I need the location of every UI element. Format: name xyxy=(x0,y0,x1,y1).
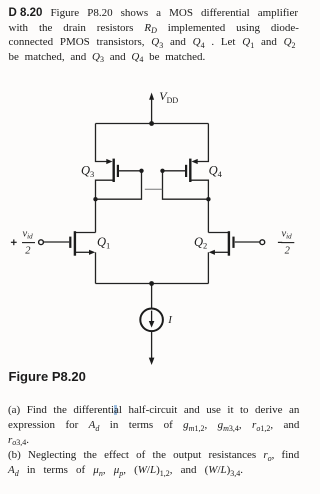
part (a) and (b) text xyxy=(8,403,299,417)
node dot Q3 gate lead xyxy=(139,169,143,173)
label vid/2 left fraction xyxy=(22,228,35,256)
Q3 source arrow (PMOS, points into channel) xyxy=(106,159,112,164)
transistor Q2 channel bar xyxy=(228,231,230,256)
wire tail to current source xyxy=(151,284,153,309)
wire Q3 gate to drain (diode connection) xyxy=(96,171,142,199)
input terminal right (open circle) xyxy=(260,240,265,245)
wire Q2 gate lead xyxy=(235,241,260,243)
transistor Q2 gate bar xyxy=(232,237,234,248)
node dot Q4 drain junction xyxy=(206,197,210,201)
svg-text:Q1: Q1 xyxy=(97,235,110,251)
svg-text:I: I xyxy=(167,314,173,326)
wire tail node xyxy=(96,283,209,285)
top rail wire xyxy=(96,123,209,125)
VDD supply arrow xyxy=(151,99,153,124)
wire Q4 drain down to Q2 drain xyxy=(190,180,208,232)
node dot Q3 drain junction xyxy=(93,197,97,201)
svg-text:vid: vid xyxy=(23,228,34,240)
current source inner arrowhead xyxy=(149,321,155,328)
wire current source to negative rail xyxy=(151,331,153,359)
wire Q1 source down to tail xyxy=(95,252,97,283)
wire Q3 gate lead xyxy=(119,170,142,172)
dashed line of symmetry xyxy=(145,188,163,190)
wire Q1 drain lead xyxy=(76,232,96,234)
wire Q1 gate lead xyxy=(44,241,69,243)
Q4 source arrow (PMOS, points into channel) xyxy=(192,159,198,164)
svg-text:Q2: Q2 xyxy=(194,235,207,251)
wire Q2 source down to tail xyxy=(207,252,209,283)
transistor Q3 channel bar xyxy=(112,159,114,182)
svg-text:VDD: VDD xyxy=(159,89,178,105)
wire Q4 gate lead xyxy=(163,170,186,172)
bottom arrowhead xyxy=(149,358,155,365)
label - (right input polarity) xyxy=(278,241,282,243)
transistor Q4 channel bar xyxy=(189,159,191,182)
node dot tail xyxy=(149,281,154,286)
svg-text:Q3: Q3 xyxy=(81,164,94,180)
wire Q4 source to rail xyxy=(197,124,209,162)
current source inner arrow shaft xyxy=(151,311,153,323)
transistor Q1 gate bar xyxy=(69,237,71,248)
transistor Q1 channel bar xyxy=(74,231,76,256)
stray blue pen mark xyxy=(114,405,117,415)
problem statement text xyxy=(9,6,299,20)
input terminal left (open circle) xyxy=(39,240,44,245)
label vid/2 right fraction xyxy=(281,228,294,256)
node dot VDD/top rail xyxy=(149,121,154,126)
wire Q4 gate to drain (diode connection) xyxy=(163,171,209,199)
node dot Q4 gate lead xyxy=(160,169,164,173)
VDD arrowhead xyxy=(149,93,154,100)
current source I circle xyxy=(140,309,163,332)
wire Q2 drain lead xyxy=(208,232,228,234)
svg-text:vid: vid xyxy=(282,228,293,240)
svg-text:2: 2 xyxy=(285,245,291,256)
wire Q3 source to rail xyxy=(96,124,108,162)
figure caption xyxy=(9,370,86,384)
wire Q1 source lead xyxy=(76,251,90,253)
transistor Q3 gate bar xyxy=(117,165,119,177)
label + (left input polarity) xyxy=(11,239,17,245)
svg-text:Q4: Q4 xyxy=(209,163,223,179)
transistor Q4 gate bar xyxy=(185,165,187,177)
Q1 source arrow (NMOS, points away from channel) xyxy=(89,250,95,255)
svg-text:2: 2 xyxy=(25,245,31,256)
Q2 source arrow (NMOS, points away from channel) xyxy=(209,250,215,255)
wire Q2 source lead xyxy=(214,251,228,253)
wire Q3 drain down to Q1 drain xyxy=(96,180,114,232)
